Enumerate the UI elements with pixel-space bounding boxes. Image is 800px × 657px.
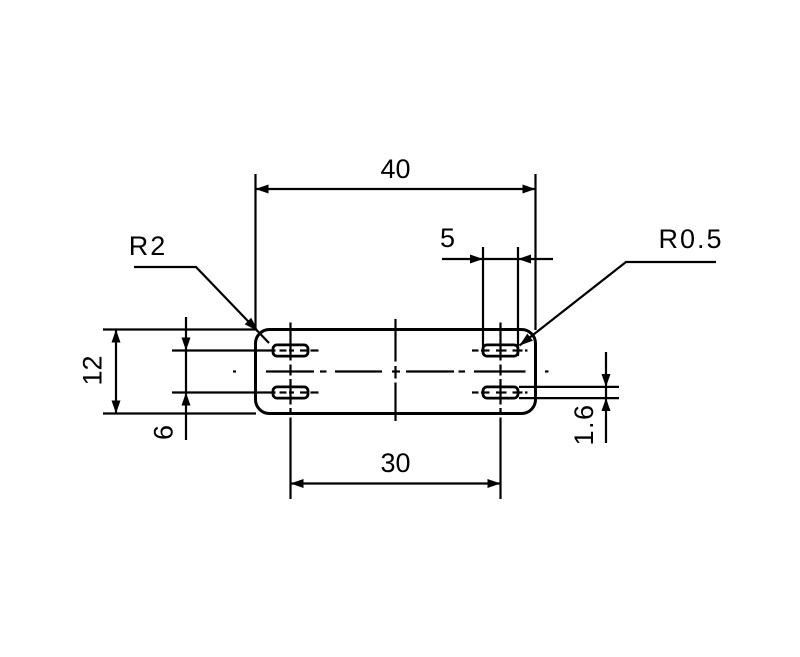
dimension 1.6 extension line bottom xyxy=(519,397,619,399)
dimension 30 arrow right xyxy=(488,479,501,488)
dimension 1.6 arrow bottom xyxy=(602,398,611,411)
dimension 6 arrow top xyxy=(182,338,191,351)
svg-text:R2: R2 xyxy=(129,231,168,261)
leader R2 arrow xyxy=(245,318,259,332)
dimension 12 line xyxy=(115,330,117,414)
slot bottom-left xyxy=(273,387,308,398)
svg-text:6: 6 xyxy=(149,425,179,440)
dimension 40 extension line left xyxy=(254,174,256,330)
slot top-left xyxy=(273,345,308,356)
dimension 30 line xyxy=(291,482,501,484)
svg-text:1.6: 1.6 xyxy=(569,403,599,445)
dimension 12 extension line bottom xyxy=(103,412,256,414)
svg-text:R0.5: R0.5 xyxy=(658,224,723,254)
dimension 30 arrow left xyxy=(291,479,304,488)
dimension 6 arrow bottom xyxy=(182,393,191,406)
leader R0.5 line xyxy=(520,262,717,346)
slot centerline row bottom-left xyxy=(172,391,319,393)
horizontal centerline xyxy=(233,370,549,372)
svg-text:30: 30 xyxy=(380,448,410,478)
slot top-right xyxy=(483,345,518,356)
dimension 5 extension line right xyxy=(517,247,519,356)
dimension 1.6 arrow top xyxy=(602,374,611,387)
dimension 1.6 line xyxy=(605,352,607,443)
dimension 40 arrow right xyxy=(523,185,536,194)
dimension 5 arrow right xyxy=(518,255,531,264)
slot centerline row top-right xyxy=(472,349,528,351)
dimension 12 extension line top xyxy=(103,328,256,330)
slot centerline row top-left xyxy=(172,349,319,351)
dimension 12 arrow bottom xyxy=(112,401,121,414)
svg-text:40: 40 xyxy=(380,154,410,184)
dimension 40 extension line right xyxy=(534,174,536,330)
dimension 40 line xyxy=(256,188,536,190)
svg-text:12: 12 xyxy=(78,355,108,385)
vertical centerline right column xyxy=(499,323,501,500)
dimension 40 arrow left xyxy=(256,185,269,194)
dimension 12 arrow top xyxy=(112,330,121,343)
dimension 1.6 extension line top xyxy=(519,386,619,388)
plate outline xyxy=(256,330,536,414)
dimension 5 arrow left xyxy=(470,255,483,264)
vertical centerline center xyxy=(394,319,396,421)
leader R0.5 arrow xyxy=(520,334,533,346)
vertical centerline left column xyxy=(289,323,291,500)
dimension 6 line xyxy=(185,317,187,440)
dimension 5 line xyxy=(442,258,553,260)
dimension 5 extension line left xyxy=(482,247,484,348)
slot bottom-right xyxy=(483,387,518,398)
slot centerline row bottom-right xyxy=(472,391,528,393)
svg-text:5: 5 xyxy=(440,223,455,253)
leader R2 line xyxy=(134,267,269,343)
